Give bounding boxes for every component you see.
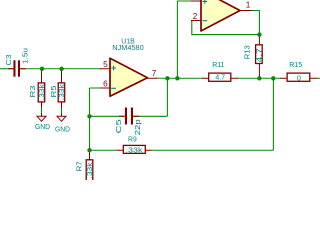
node R3 tap [40,67,44,71]
wire input net left y=68.6 [0,1,320,162]
node C5 left / pin6 [87,114,91,118]
node output/opamp2 [175,76,179,80]
op-amp U1B pin5 [100,68,110,70]
ground symbol right [55,116,70,133]
capacitor C3 [6,48,29,77]
ground symbol left [35,116,50,131]
resistor R11 pins [202,77,238,79]
capacitor C3 pins [8,68,26,70]
op-amp U1B pin7 [148,77,158,79]
svg-text:2: 2 [193,12,198,21]
resistor R5 bottom pin [61,102,63,108]
resistor R15 [287,62,310,82]
svg-text:.33k: .33k [39,84,46,101]
resistor R13 pins [258,35,260,79]
node R13 bottom [257,76,261,80]
resistor R3 top pin [41,69,43,83]
svg-text:1: 1 [246,1,251,10]
svg-text:.33k: .33k [126,148,144,155]
resistor R3 [30,83,46,102]
op-amp U1A pin2 stub [191,20,201,22]
wire feedback from pin2 [192,21,260,35]
svg-text:.33k: .33k [59,84,66,101]
resistor R13 [244,45,263,64]
wire output net U1B [156,77,320,79]
resistor R15 pins [280,77,317,79]
svg-text:GND: GND [35,124,50,131]
svg-text:R3: R3 [30,85,37,97]
resistor R11 [209,62,231,81]
svg-text:4.7: 4.7 [215,75,225,82]
svg-text:1.5u: 1.5u [22,48,29,64]
svg-text:R15: R15 [289,62,302,69]
svg-text:C3: C3 [6,54,13,65]
svg-text:R11: R11 [212,62,224,69]
pin stubs dark red [8,1,317,160]
wire gnd mid segment R3 [41,108,43,114]
svg-text:.33k: .33k [87,162,94,179]
svg-text:22p: 22p [135,119,142,135]
wire [20,68,101,70]
wire to top op-amp plus input [177,1,192,78]
resistor R5 [51,83,66,102]
svg-text:0: 0 [297,75,301,82]
svg-text:R5: R5 [51,85,58,97]
svg-text:NJM4580: NJM4580 [112,45,144,52]
op-amp U1B [103,39,157,97]
svg-text:R13: R13 [244,45,251,59]
svg-text:GND: GND [55,126,70,133]
resistor R7 [77,160,94,182]
gnd stub left [41,113,43,116]
svg-text:4.7: 4.7 [256,48,263,62]
svg-text:C5: C5 [116,119,123,133]
op-amp U1A pin1 stub [240,10,252,12]
wire [0,68,13,70]
resistor R5 top pin [61,69,63,83]
capacitor C5 pins [119,115,140,117]
svg-text:6: 6 [103,80,108,89]
gnd stub right [61,113,63,116]
wire R9 branch [90,78,274,150]
node output/C5 [165,76,169,80]
svg-text:R7: R7 [77,161,84,171]
op-amp U1A top [193,0,251,31]
wire gnd mid segment R5 [61,108,63,114]
wire top op-amp output [249,11,259,35]
node R9 right [271,76,275,80]
svg-text:7: 7 [152,69,157,78]
node R7/R9 [87,148,91,152]
op-amp U1B pin6 [100,87,110,89]
wire pin6 net vertical [90,88,102,162]
wire C5 branch horizontal [90,78,168,116]
op-amp U1A pin3 stub [191,0,201,2]
svg-text:5: 5 [103,60,108,69]
resistor R9 [123,136,145,154]
svg-text:R9: R9 [128,136,137,143]
capacitor C5 [116,108,142,136]
node feedback/R13 top [257,32,261,36]
resistor R7 top pin [89,152,91,160]
resistor R9 pins [117,149,152,151]
node R5 tap [59,67,63,71]
resistor R3 bottom pin [41,102,43,108]
